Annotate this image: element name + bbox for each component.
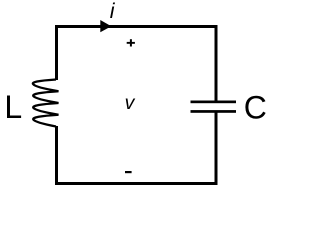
svg-text:v: v [125,92,136,114]
svg-text:i: i [110,0,116,23]
svg-text:L: L [4,89,22,125]
svg-text:C: C [244,89,267,125]
